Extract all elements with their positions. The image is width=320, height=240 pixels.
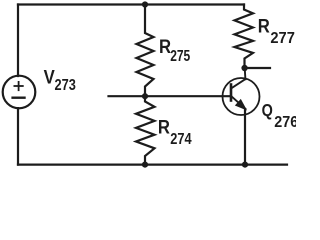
wire collector stub xyxy=(245,67,270,69)
voltage source V273 xyxy=(3,76,36,109)
label R277 xyxy=(258,15,295,47)
wire bottom rail xyxy=(18,164,287,166)
junction emitter at bottom rail xyxy=(242,162,248,168)
svg-text:R: R xyxy=(158,117,170,138)
transistor Q276 xyxy=(223,78,260,115)
svg-text:Q: Q xyxy=(262,100,273,120)
wire emitter lead xyxy=(244,109,246,165)
wire top rail xyxy=(18,3,244,5)
svg-text:275: 275 xyxy=(170,47,190,65)
svg-text:274: 274 xyxy=(170,131,191,149)
label R275 xyxy=(159,36,190,64)
svg-text:V: V xyxy=(44,67,55,88)
resistor R274 xyxy=(136,96,155,165)
resistor R277 xyxy=(235,5,254,69)
resistor R275 xyxy=(137,5,154,97)
wire V273 top lead xyxy=(17,5,19,77)
label V273 xyxy=(44,67,76,95)
svg-text:276: 276 xyxy=(274,113,296,131)
label R274 xyxy=(158,117,192,149)
svg-text:277: 277 xyxy=(270,30,294,48)
svg-text:R: R xyxy=(159,36,171,57)
junction base node xyxy=(142,93,148,99)
V273 minus sign xyxy=(13,96,25,98)
junction collector node xyxy=(241,65,247,71)
V273 plus sign xyxy=(14,82,22,90)
label Q276 xyxy=(262,100,299,131)
svg-text:R: R xyxy=(258,15,270,36)
junction bottom of R274 xyxy=(142,162,148,168)
junction top of R275 xyxy=(142,1,148,7)
svg-text:273: 273 xyxy=(55,77,76,94)
wire V273 bottom lead xyxy=(17,108,19,165)
wire collector lead xyxy=(244,68,247,79)
wire middle rail (base node) xyxy=(109,95,232,97)
